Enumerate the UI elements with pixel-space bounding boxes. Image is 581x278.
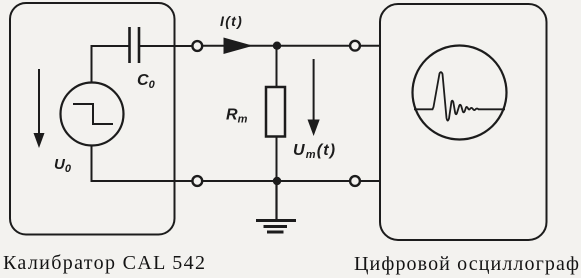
terminal top-left bbox=[192, 41, 202, 51]
wire resistor to bottom node bbox=[276, 136, 278, 181]
wire source top to capacitor bbox=[92, 46, 130, 83]
wire bottom terminal to scope terminal bbox=[203, 180, 351, 182]
junction bottom node bbox=[273, 177, 281, 185]
arrow U0 bbox=[34, 69, 45, 148]
terminal top-right bbox=[350, 41, 360, 51]
junction top node bbox=[273, 42, 281, 50]
svg-text:Rm: Rm bbox=[226, 107, 248, 126]
wire junction to resistor bbox=[276, 46, 278, 88]
current arrow I(t) bbox=[224, 38, 254, 55]
oscilloscope box bbox=[380, 4, 547, 240]
svg-text:Калибратор CAL 542: Калибратор CAL 542 bbox=[3, 252, 205, 274]
wire bottom-right terminal to scope box bbox=[360, 180, 380, 182]
ground bbox=[256, 181, 296, 232]
scope screen circle bbox=[413, 46, 507, 140]
step waveform bbox=[73, 104, 113, 124]
svg-text:U0: U0 bbox=[54, 156, 72, 175]
terminal bottom-left bbox=[192, 176, 202, 186]
wire top-right terminal to scope box bbox=[360, 45, 380, 47]
terminal bottom-right bbox=[350, 176, 360, 186]
svg-text:Um(t): Um(t) bbox=[293, 142, 336, 161]
svg-text:Цифровой осциллограф: Цифровой осциллограф bbox=[354, 253, 579, 275]
wire top terminal to scope terminal bbox=[203, 45, 351, 47]
arrow Um(t) bbox=[308, 59, 320, 136]
wire source bottom to bottom-left terminal bbox=[92, 146, 193, 182]
wire capacitor to top-left terminal bbox=[140, 45, 192, 47]
capacitor C0 bbox=[130, 27, 140, 63]
scope waveform bbox=[414, 72, 505, 121]
calibrator box bbox=[10, 3, 175, 235]
svg-text:C0: C0 bbox=[137, 72, 156, 91]
svg-text:I(t): I(t) bbox=[220, 13, 243, 29]
resistor Rm bbox=[266, 87, 285, 137]
source U0 circle bbox=[61, 83, 124, 146]
